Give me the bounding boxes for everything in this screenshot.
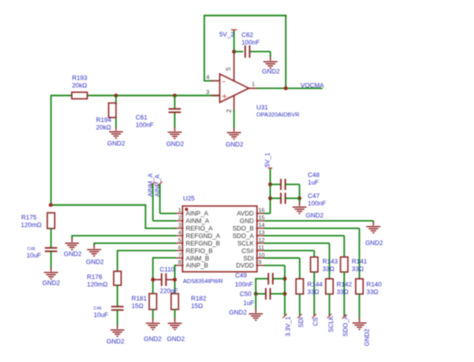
svg-text:C110: C110 [160, 266, 175, 273]
wire AINP_A to pin 1 [160, 184, 176, 214]
node junction C49 right [283, 277, 287, 281]
resistor R142 [326, 279, 353, 296]
op-amp U1 pin 3 stub [206, 90, 220, 96]
op-amp U31 triangle [220, 74, 249, 103]
wire into pin 3 REFIO_A [145, 227, 176, 229]
svg-text:GND2: GND2 [226, 141, 244, 148]
svg-text:GND2: GND2 [86, 259, 104, 266]
wire C47 right to ground [285, 198, 299, 202]
ground GND2 under R140 [352, 318, 371, 346]
svg-text:R143: R143 [323, 259, 339, 266]
svg-text:REFGND_B: REFGND_B [186, 240, 220, 247]
wire REFGND_B [94, 243, 176, 246]
wire pin8 AINP_B [175, 265, 176, 295]
svg-text:5: 5 [178, 238, 181, 244]
resistor R175 [21, 213, 55, 229]
svg-text:C46: C46 [94, 305, 102, 310]
svg-text:GND2: GND2 [144, 336, 162, 343]
svg-text:C47: C47 [308, 193, 320, 200]
wire pin12 SCLK [264, 243, 330, 279]
svg-text:10uF: 10uF [94, 312, 109, 319]
wire pin7 AINM_B [153, 257, 176, 294]
capacitor C50 [266, 288, 270, 300]
svg-text:GND2: GND2 [166, 141, 184, 148]
wire feedback right vertical [285, 15, 287, 89]
wire node to REFIO_A horizontal [50, 204, 145, 206]
capacitor C47 [281, 193, 326, 208]
node junction C110 left [151, 278, 155, 282]
wire R143 to CS [313, 272, 315, 317]
svg-text:5V_2: 5V_2 [219, 32, 234, 39]
svg-text:GND: GND [240, 218, 254, 225]
resistor R176 [87, 271, 121, 288]
wire REFIO_A vertical drop [145, 204, 147, 228]
ground GND2 pin15 [365, 222, 383, 248]
capacitor C48 [281, 172, 320, 190]
svg-text:AINP_B: AINP_B [186, 263, 208, 270]
wire R144 to SDI [299, 294, 301, 317]
wire C50 row [256, 293, 285, 295]
svg-text:C50: C50 [240, 291, 252, 298]
svg-text:GND2: GND2 [107, 140, 125, 147]
ground GND2 under C46 a [42, 268, 60, 287]
svg-text:SDI: SDI [243, 255, 254, 262]
svg-text:10uF: 10uF [27, 252, 42, 259]
svg-text:SDI: SDI [298, 317, 305, 328]
svg-text:120mΩ: 120mΩ [21, 222, 42, 229]
net label SDI [298, 314, 306, 328]
wire left vertical to REFIO node [50, 95, 52, 206]
node junction C47 [268, 196, 272, 200]
svg-text:100nF: 100nF [235, 282, 253, 289]
node junction R194 [114, 94, 118, 98]
wire main input net to op-amp +IN [51, 95, 220, 97]
svg-text:8: 8 [178, 260, 181, 266]
net label 3.3V_1 [283, 314, 293, 337]
node junction REFIO [49, 203, 53, 207]
svg-text:R193: R193 [72, 75, 88, 82]
svg-text:R182: R182 [191, 295, 207, 302]
capacitor C61 [136, 109, 181, 129]
svg-text:100nF: 100nF [308, 201, 326, 208]
ground GND2 under R182 [167, 318, 185, 343]
svg-text:7: 7 [178, 253, 181, 259]
svg-text:R142: R142 [337, 282, 353, 289]
capacitor C46 a [27, 246, 58, 259]
node junction C48 [268, 183, 272, 187]
svg-text:GND2: GND2 [262, 69, 280, 76]
wire R175 to C46 [50, 228, 52, 248]
svg-text:3.3V_1: 3.3V_1 [285, 316, 292, 336]
svg-text:ADS8354IPWR: ADS8354IPWR [183, 279, 223, 285]
svg-text:CS#: CS# [242, 248, 255, 255]
wire 5V1 to pin16 AVDD [264, 212, 270, 214]
net label CS [312, 314, 320, 326]
svg-text:REFGND_A: REFGND_A [186, 233, 221, 240]
resistor R140 [356, 279, 382, 296]
op-amp U1 pin 4 stub [206, 75, 220, 81]
svg-text:U31: U31 [256, 104, 268, 111]
wire C49 row [256, 278, 285, 280]
svg-text:33Ω: 33Ω [307, 289, 319, 296]
svg-text:GND2: GND2 [365, 240, 383, 247]
svg-text:R176: R176 [87, 274, 103, 281]
wire C48 right down [285, 184, 299, 198]
wire R181 to ground [152, 309, 154, 319]
wire C62 right to ground [250, 52, 271, 57]
node junction C110 right [173, 278, 177, 282]
svg-text:GND2: GND2 [306, 212, 324, 219]
capacitor C46 b [94, 305, 124, 319]
wire output VOCMA [257, 87, 323, 89]
svg-text:AVDD: AVDD [237, 211, 254, 218]
net label VOCMA [301, 83, 325, 90]
wire REFIO_B [117, 250, 176, 272]
power 5V_2 port [219, 30, 237, 52]
labels C49 C50 [235, 273, 255, 308]
wire pin2 to ground [233, 110, 235, 128]
ground GND2 under C47 [293, 202, 325, 219]
svg-text:REFIO_B: REFIO_B [186, 248, 213, 255]
svg-text:33Ω: 33Ω [352, 266, 364, 273]
node junction output/feedback [284, 86, 288, 90]
svg-text:5: 5 [226, 67, 233, 71]
svg-text:R141: R141 [352, 259, 368, 266]
ground GND2 under C46 b [107, 325, 125, 346]
svg-text:15: 15 [258, 216, 264, 222]
svg-text:1uF: 1uF [308, 179, 319, 186]
node junction C50 right [283, 292, 287, 296]
svg-text:2: 2 [226, 109, 233, 113]
svg-text:33Ω: 33Ω [337, 289, 349, 296]
svg-text:33Ω: 33Ω [323, 266, 335, 273]
svg-text:SCLK: SCLK [328, 315, 335, 332]
svg-text:DVDD: DVDD [236, 263, 254, 270]
svg-text:C61: C61 [136, 115, 148, 122]
net label SDO_A [342, 314, 350, 336]
wire pin9 DVDD [264, 265, 285, 316]
svg-text:GND2: GND2 [167, 336, 185, 343]
net label AINM_A [147, 173, 155, 197]
svg-text:100nF: 100nF [242, 39, 260, 46]
wire feedback to -IN pin 4 [204, 80, 212, 82]
U25 pins with numbers and names [175, 208, 265, 270]
svg-text:13: 13 [258, 230, 264, 236]
wire R142 to SCLK [328, 294, 330, 317]
op-amp pin 5 stub [226, 52, 234, 82]
wire pin11 CS# [264, 251, 314, 258]
svg-text:OPA320AIDBVR: OPA320AIDBVR [256, 113, 299, 119]
svg-text:1uF: 1uF [243, 300, 254, 307]
ground GND2 REFGND_A [64, 238, 82, 258]
ground GND2 under C49/C50 [229, 309, 263, 320]
svg-text:9: 9 [258, 260, 261, 266]
IC U25 body [183, 196, 258, 285]
power 5V_1 port [265, 152, 273, 213]
label R194 value [96, 117, 112, 132]
wire pin14 SDO_B [264, 228, 360, 279]
svg-text:+: + [222, 92, 227, 102]
svg-text:SDO_A: SDO_A [232, 233, 254, 240]
resistor R194 [109, 103, 116, 118]
wire C62 left [234, 51, 243, 53]
svg-text:GND2: GND2 [229, 310, 247, 317]
capacitor C49 [268, 273, 272, 285]
wire pin13 SDO_A [264, 236, 344, 258]
svg-text:6: 6 [178, 245, 181, 251]
svg-text:REFIO_A: REFIO_A [186, 226, 214, 233]
svg-text:R175: R175 [21, 214, 37, 221]
ground GND2 under C61 [166, 127, 184, 148]
svg-text:C46: C46 [27, 246, 35, 251]
resistor R182 [171, 294, 207, 310]
svg-text:20kΩ: 20kΩ [72, 82, 87, 89]
svg-text:VOCMA: VOCMA [301, 83, 325, 90]
wire pin10 SDI [264, 258, 300, 279]
wire C49/C50 left to ground [255, 278, 257, 309]
svg-text:GND2: GND2 [42, 280, 60, 287]
wire R182 to ground [174, 309, 176, 319]
net label AINP_A [154, 174, 162, 197]
capacitor C110 [153, 266, 178, 295]
svg-text:R181: R181 [132, 295, 148, 302]
svg-text:2: 2 [178, 216, 181, 222]
op-amp pin 1 output stub [249, 82, 258, 88]
svg-text:C49: C49 [235, 273, 247, 280]
wire pin15 GND [264, 221, 374, 222]
ground GND2 REFGND_B [86, 245, 104, 267]
resistor R141 [341, 257, 368, 273]
net label SCLK [327, 314, 335, 333]
ground GND2 op-amp [226, 128, 244, 149]
wire C48 left [270, 183, 281, 185]
svg-text:11: 11 [258, 245, 264, 251]
svg-text:GND2: GND2 [107, 339, 125, 346]
label U31 [256, 104, 299, 118]
svg-text:4: 4 [178, 230, 181, 236]
svg-text:GND2: GND2 [64, 251, 82, 258]
svg-text:15Ω: 15Ω [191, 303, 203, 310]
wire feedback left vertical [203, 16, 205, 82]
wire C46 to ground [50, 251, 52, 268]
node junction C61 [173, 94, 177, 98]
ground GND2 under R194 [107, 127, 125, 148]
svg-text:100nF: 100nF [136, 122, 154, 129]
wire C47 left [270, 197, 281, 199]
svg-text:SDO_B: SDO_B [232, 226, 253, 233]
wire R194 branch [115, 96, 117, 128]
wire C61 branch [174, 96, 176, 128]
svg-text:10: 10 [258, 253, 264, 259]
svg-text:1: 1 [178, 208, 181, 214]
svg-text:R140: R140 [366, 282, 382, 289]
svg-text:15Ω: 15Ω [132, 303, 144, 310]
svg-text:3: 3 [206, 90, 209, 96]
svg-text:-: - [222, 77, 225, 87]
wire REFGND_A [72, 235, 176, 239]
svg-text:CS: CS [313, 317, 320, 326]
wire R140 to ground [358, 294, 360, 319]
ground GND2 under C62 [262, 57, 280, 76]
svg-text:16: 16 [258, 208, 264, 214]
U25 pin 1 marker [185, 208, 188, 211]
wire R141 to SDO_A [343, 272, 345, 317]
svg-text:C62: C62 [242, 32, 254, 39]
wire AINM_A to pin 2 [153, 184, 176, 221]
wire feedback top [204, 15, 287, 17]
node junction C50 left [254, 292, 258, 296]
wire R176 to C46 b [116, 285, 118, 307]
resistor R193 [72, 75, 88, 99]
resistor R144 [296, 279, 323, 296]
svg-text:1: 1 [252, 82, 255, 88]
svg-text:C48: C48 [308, 172, 320, 179]
svg-text:12: 12 [258, 238, 264, 244]
node junction 5V2/C62 [232, 50, 236, 54]
resistor R143 [311, 257, 339, 273]
svg-text:AINM_A: AINM_A [186, 218, 210, 225]
svg-text:R194: R194 [96, 117, 112, 124]
svg-text:U25: U25 [183, 196, 195, 203]
node junction C47 right [298, 196, 302, 200]
resistor R181 [132, 294, 157, 310]
wire C46 b to ground [116, 310, 118, 325]
svg-text:33Ω: 33Ω [366, 289, 378, 296]
svg-text:R144: R144 [307, 282, 323, 289]
ground GND2 under R181 [144, 318, 162, 343]
svg-text:14: 14 [258, 223, 264, 229]
svg-text:20kΩ: 20kΩ [96, 124, 111, 131]
svg-text:GND2: GND2 [364, 328, 371, 346]
svg-text:AINM_B: AINM_B [186, 255, 209, 262]
op-amp pin 2 stub [226, 96, 234, 113]
svg-text:SCLK: SCLK [237, 240, 254, 247]
capacitor C62 [242, 32, 260, 58]
svg-text:120mΩ: 120mΩ [87, 281, 108, 288]
svg-text:5V_1: 5V_1 [265, 152, 272, 167]
svg-text:3: 3 [178, 223, 181, 229]
svg-text:AINP_A: AINP_A [186, 211, 209, 218]
